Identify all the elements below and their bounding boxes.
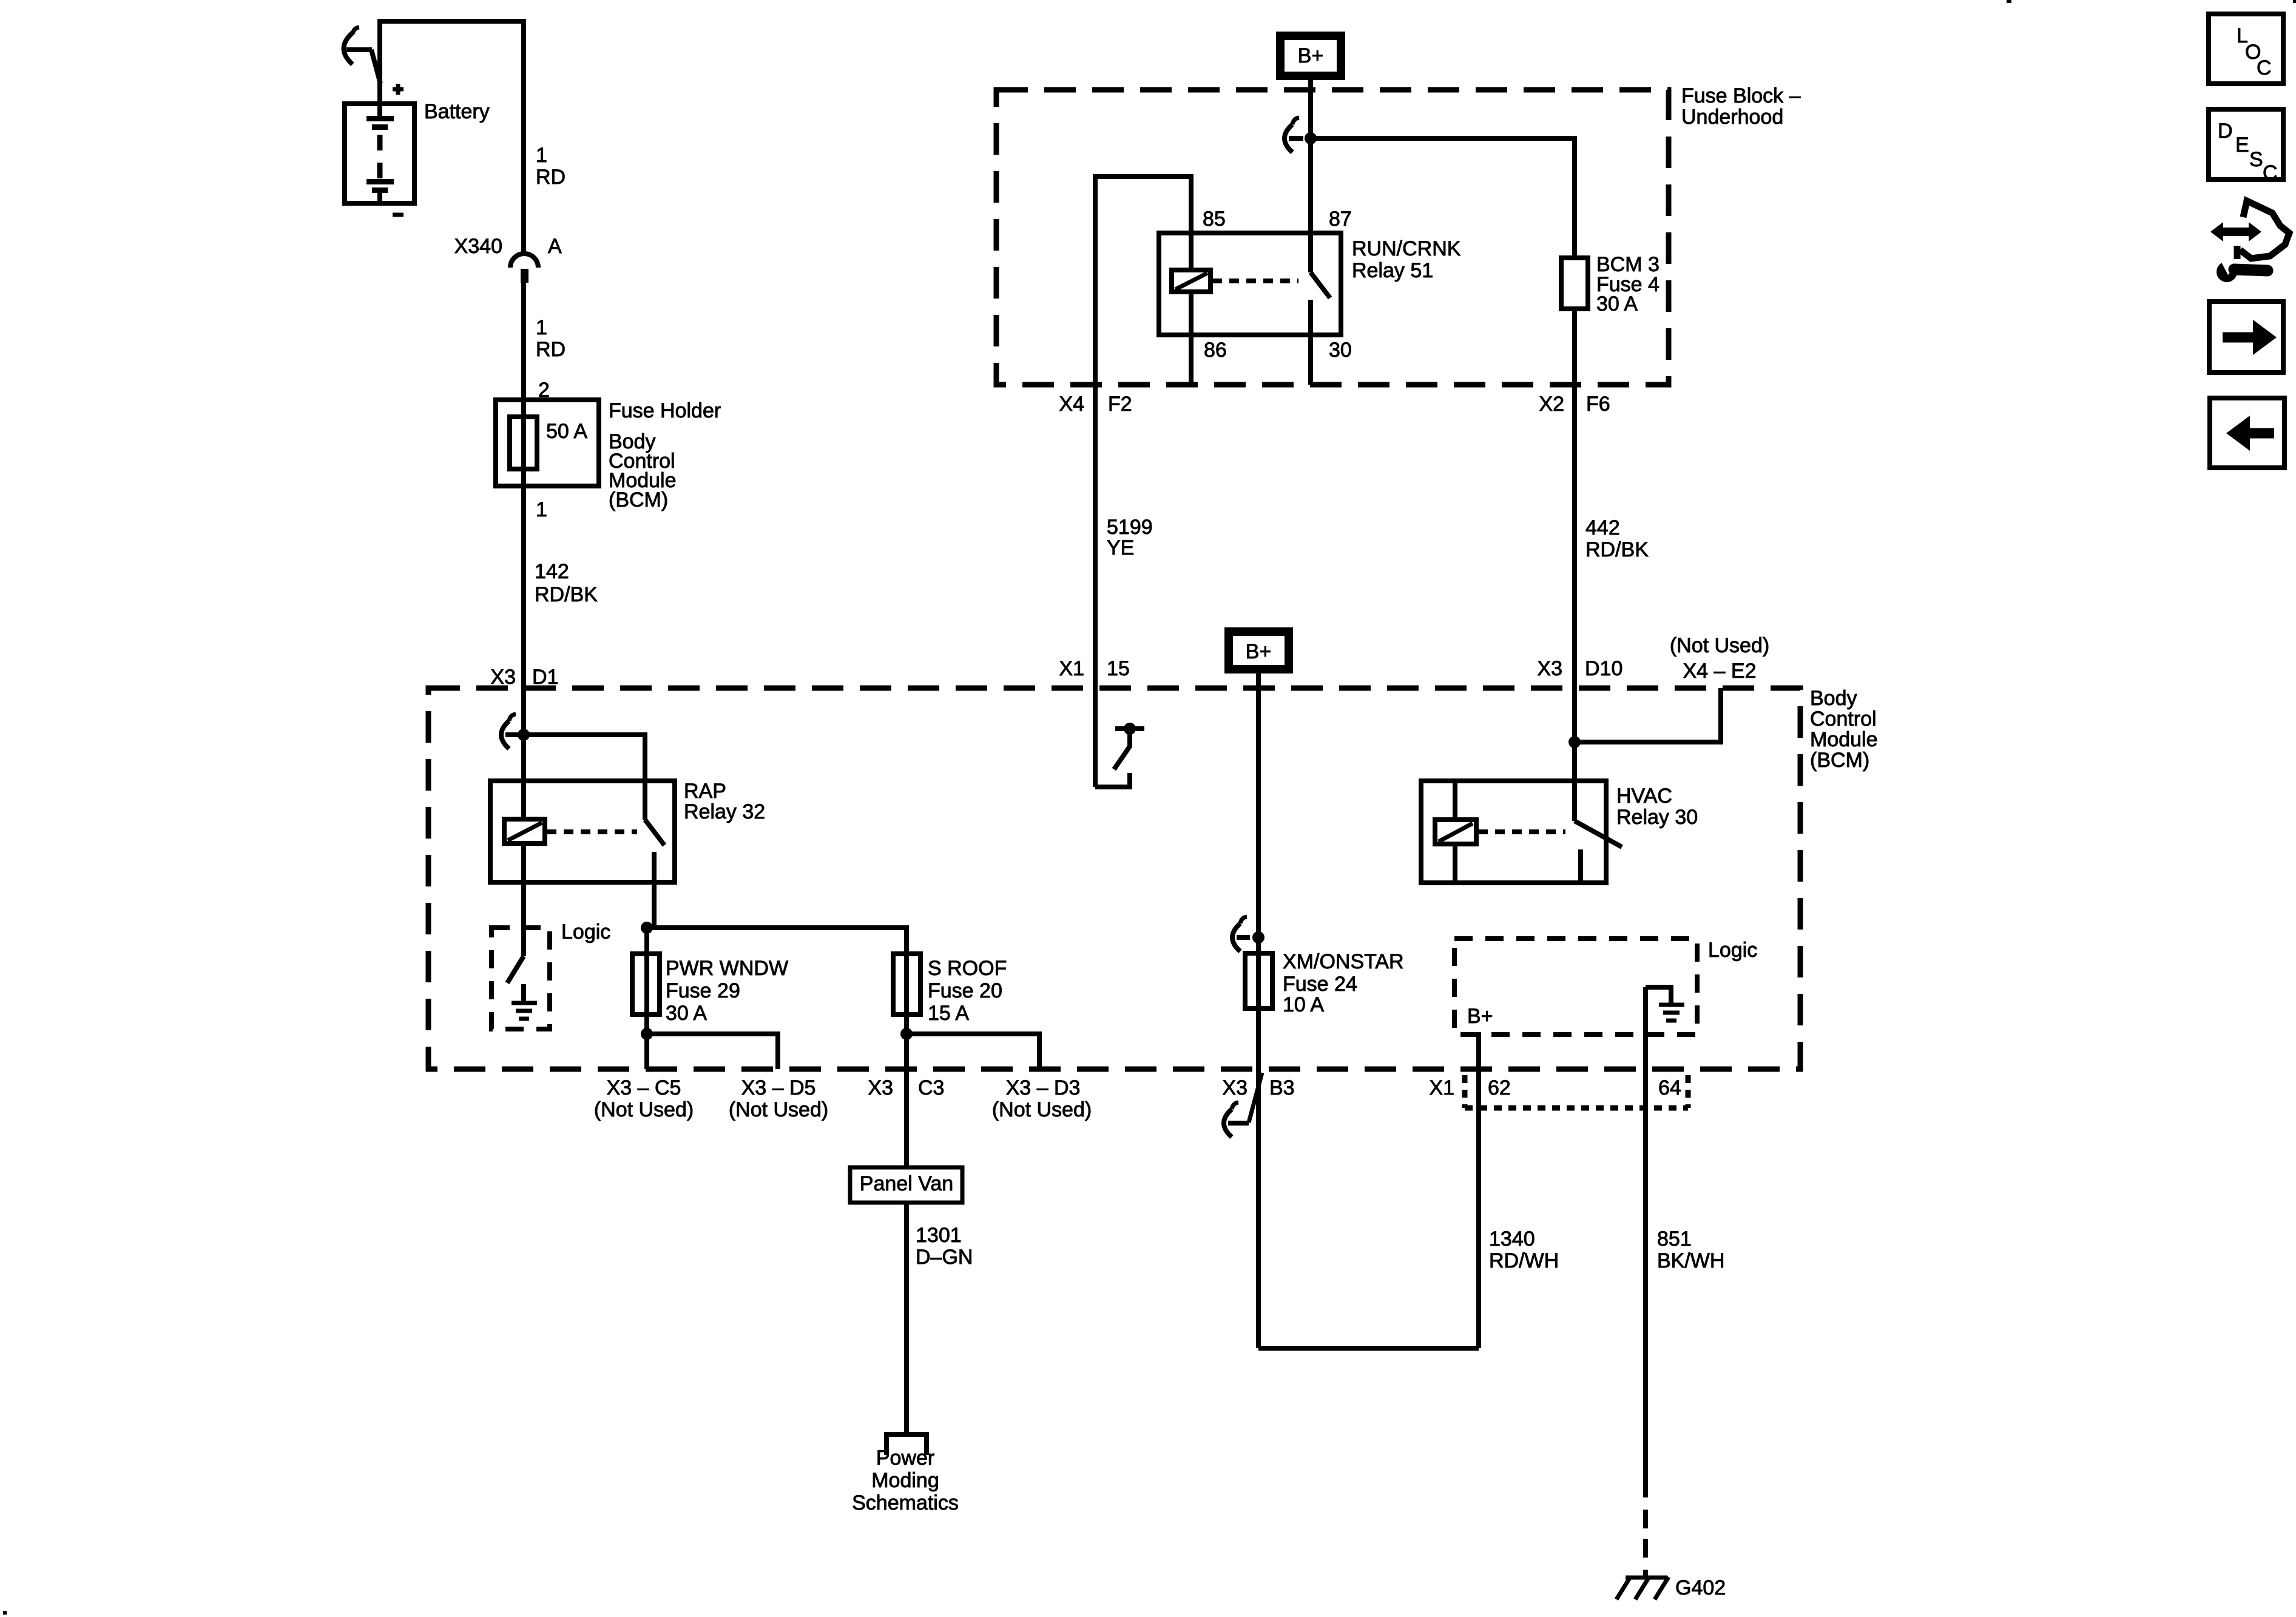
wire relay 51 coil loop to X4 F2 (1095, 177, 1191, 385)
svg-text:Relay 32: Relay 32 (684, 800, 765, 823)
wire through S ROOF fuse (904, 954, 909, 1167)
label 851 BK/WH (1657, 1227, 1724, 1272)
label X3 - D3 (Not Used) (992, 1076, 1092, 1121)
svg-text:C: C (2263, 161, 2278, 184)
svg-text:X2: X2 (1539, 393, 1564, 416)
label 1301 D-GN (916, 1224, 973, 1269)
svg-text:Body: Body (1810, 687, 1857, 710)
svg-text:851: 851 (1657, 1227, 1692, 1251)
svg-text:B+: B+ (1246, 640, 1272, 663)
label HVAC Relay 30 (1616, 785, 1698, 829)
wire 442 RD/BK (1572, 385, 1577, 821)
svg-text:X3 – C5: X3 – C5 (607, 1076, 681, 1099)
svg-text:Logic: Logic (561, 920, 610, 944)
RAP relay switch blade (645, 820, 664, 845)
svg-text:RD/WH: RD/WH (1489, 1249, 1559, 1272)
svg-text:Power: Power (876, 1447, 934, 1470)
label 5199 YE (1107, 516, 1153, 559)
connector label X3 D10 (1537, 657, 1622, 680)
connector label X3 C3 (868, 1076, 944, 1099)
svg-text:X340: X340 (454, 235, 502, 258)
logic box left (491, 928, 550, 1029)
DESC nav box (2209, 109, 2283, 184)
wire junction through PWR WNDW fuse (644, 928, 649, 1034)
svg-text:S: S (2249, 148, 2263, 171)
wire B+ logic to X1 62 (1476, 1032, 1481, 1348)
svg-text:Moding: Moding (871, 1469, 939, 1492)
svg-text:XM/ONSTAR: XM/ONSTAR (1283, 950, 1404, 973)
svg-text:X3: X3 (490, 666, 516, 689)
svg-text:X3: X3 (868, 1076, 893, 1099)
wire B+ down (1308, 80, 1313, 138)
svg-text:Fuse 24: Fuse 24 (1283, 973, 1357, 996)
label XM/ONSTAR Fuse 24 10 A (1283, 950, 1404, 1016)
back arrow box (2210, 398, 2284, 468)
wire label 1 RD upper (536, 144, 566, 189)
svg-text:S ROOF: S ROOF (928, 957, 1007, 980)
svg-text:X3 – D5: X3 – D5 (741, 1076, 816, 1099)
svg-text:(Not Used): (Not Used) (594, 1098, 694, 1121)
wire battery positive to main feed (380, 21, 524, 255)
stray mark top (2007, 0, 2011, 3)
svg-text:Fuse Holder: Fuse Holder (609, 399, 721, 422)
svg-text:F2: F2 (1108, 393, 1132, 416)
svg-text:X3 – D3: X3 – D3 (1006, 1076, 1081, 1099)
node junction below fuse 29 (641, 1028, 653, 1040)
fuse PWR WNDW 29 (632, 954, 660, 1014)
logic ground right (1646, 987, 1684, 1021)
svg-text:Panel Van: Panel Van (860, 1172, 953, 1195)
battery B1 (345, 104, 414, 203)
svg-text:Relay 51: Relay 51 (1352, 259, 1433, 282)
wire junction to X4-E2 (1575, 688, 1721, 742)
wire RAP output to fuses (652, 882, 657, 928)
RAP Relay 32 box (490, 781, 675, 882)
relay 51 coil-switch dashed link (1212, 279, 1298, 283)
svg-text:BK/WH: BK/WH (1657, 1249, 1724, 1272)
logic switch blade (507, 956, 524, 983)
label X3 - D5 (Not Used) (729, 1076, 828, 1121)
connector label X3 B3 (1222, 1076, 1294, 1099)
relay 51 output contact pin 30 (1308, 300, 1313, 385)
HVAC relay coil (1435, 781, 1476, 883)
svg-text:D10: D10 (1585, 657, 1622, 680)
RAP relay coil (504, 819, 545, 843)
connector label X1 15 (1059, 657, 1129, 680)
label X4 - E2 (Not Used) (1670, 634, 1769, 683)
stray mark top right corner (2293, 0, 2296, 3)
svg-text:E: E (2235, 133, 2249, 157)
svg-text:1: 1 (536, 316, 547, 339)
Fuse Block Underhood dashed box (996, 90, 1669, 385)
logic ground (512, 984, 537, 1019)
svg-text:RD: RD (536, 338, 566, 361)
svg-text:X1: X1 (1429, 1076, 1454, 1099)
fuse 50A element (510, 417, 537, 469)
wire splice to BCM3 fuse (1311, 138, 1575, 258)
wire X340 to fuse holder (521, 283, 526, 400)
connector X1 dotted marks (1465, 1075, 1688, 1108)
battery plus sign (393, 84, 403, 95)
svg-text:B3: B3 (1269, 1076, 1295, 1099)
svg-text:B+: B+ (1467, 1005, 1493, 1028)
connector label X2 F6 (1539, 393, 1610, 416)
label Body Control Module (BCM) (1810, 687, 1878, 772)
battery minus sign (393, 213, 403, 217)
forward arrow box (2209, 302, 2283, 373)
splice under X3 D1 (501, 714, 530, 749)
relay 51 coil (1172, 233, 1210, 385)
svg-text:30 A: 30 A (1596, 292, 1638, 316)
svg-text:1301: 1301 (916, 1224, 962, 1247)
wire fuse 4 down (1572, 309, 1577, 385)
label X3 - C5 (Not Used) (594, 1076, 694, 1121)
label S ROOF Fuse 20 15 A (928, 957, 1007, 1025)
svg-text:Fuse Block –: Fuse Block – (1681, 84, 1801, 107)
wire junction to S ROOF fuse (647, 928, 907, 954)
node junction 442 (1568, 736, 1581, 748)
wire 851 BK/WH (1643, 987, 1648, 1497)
svg-text:(BCM): (BCM) (609, 488, 668, 511)
svg-text:X3: X3 (1222, 1076, 1248, 1099)
label PWR WNDW Fuse 29 30 A (666, 957, 788, 1025)
label Fuse Holder Body Control Module (BCM) (609, 399, 721, 511)
svg-text:1: 1 (536, 144, 547, 167)
svg-text:RD: RD (536, 166, 566, 189)
svg-text:RD/BK: RD/BK (535, 583, 598, 606)
svg-text:PWR WNDW: PWR WNDW (666, 957, 788, 980)
HVAC relay output contact (1578, 849, 1583, 883)
wire fuse holder to BCM, circuit 142 (521, 486, 526, 819)
ignition logic switch contact (1095, 723, 1144, 787)
svg-text:Schematics: Schematics (852, 1491, 959, 1514)
splice B+ node (1285, 118, 1317, 152)
wire junction to X3-D3 (907, 1034, 1039, 1069)
HVAC relay switch blade (1575, 821, 1622, 847)
hood wrench icon (2210, 201, 2289, 282)
wire 1301 D-GN (904, 1203, 909, 1432)
fuse holder box (496, 400, 599, 486)
svg-text:1340: 1340 (1489, 1227, 1535, 1251)
svg-text:86: 86 (1204, 339, 1227, 362)
wire splice to RAP relay switch (524, 735, 645, 820)
node junction below fuse 20 (900, 1028, 913, 1040)
svg-text:A: A (548, 235, 562, 258)
label 442 RD/BK (1585, 516, 1649, 561)
svg-text:142: 142 (535, 560, 569, 583)
wire B+ to relay 51 switch (1308, 138, 1313, 272)
wire through fuse holder (521, 400, 526, 486)
connector label X1 62 (1429, 1076, 1510, 1099)
splice XM node (1232, 917, 1264, 951)
svg-text:62: 62 (1488, 1076, 1511, 1099)
svg-text:RAP: RAP (684, 780, 726, 803)
svg-text:X1: X1 (1059, 657, 1084, 680)
logic box right (1454, 939, 1697, 1035)
svg-text:Relay 30: Relay 30 (1616, 806, 1698, 829)
svg-text:Logic: Logic (1708, 939, 1757, 962)
svg-text:Underhood: Underhood (1681, 106, 1783, 129)
svg-text:85: 85 (1203, 208, 1226, 231)
Panel Van box (850, 1167, 962, 1203)
label RUN/CRNK Relay 51 (1352, 237, 1461, 282)
wire 5199 YE (1093, 385, 1098, 787)
label Fuse Block - Underhood (1681, 84, 1801, 129)
connector B3 terminal blade (1224, 1073, 1262, 1137)
connector label X4 F2 (1059, 393, 1132, 416)
svg-text:10 A: 10 A (1283, 993, 1324, 1016)
RAP relay coil-switch dashed link (547, 829, 637, 834)
LOC nav box (2209, 14, 2283, 84)
wire junction to X3-C5 (644, 1034, 649, 1069)
svg-text:15: 15 (1107, 657, 1130, 680)
svg-text:RUN/CRNK: RUN/CRNK (1352, 237, 1461, 260)
svg-text:64: 64 (1658, 1076, 1681, 1099)
wire B3 link to circuit 1340 (1258, 1346, 1479, 1351)
ground G402 (1616, 1576, 1726, 1599)
RAP relay output contact (652, 852, 657, 882)
svg-text:G402: G402 (1675, 1576, 1726, 1599)
Body Control Module dashed box (428, 688, 1800, 1069)
label RAP Relay 32 (684, 780, 765, 823)
svg-text:C3: C3 (918, 1076, 944, 1099)
svg-text:X4 – E2: X4 – E2 (1683, 660, 1757, 683)
svg-text:(Not Used): (Not Used) (729, 1098, 828, 1121)
svg-text:D: D (2218, 120, 2233, 143)
svg-text:RD/BK: RD/BK (1585, 538, 1649, 561)
B+ power symbol middle (1224, 627, 1293, 673)
svg-text:YE: YE (1107, 536, 1134, 559)
node junction fuse row (641, 922, 653, 934)
fuse BCM 3 Fuse 4 (1561, 258, 1588, 309)
svg-text:30 A: 30 A (666, 1002, 707, 1025)
svg-text:Control: Control (1810, 707, 1877, 731)
svg-text:87: 87 (1329, 208, 1352, 231)
label Power Moding Schematics (852, 1447, 959, 1514)
wire label 1 RD lower (536, 316, 566, 361)
stray mark bottom left (3, 1611, 7, 1615)
fuse S ROOF 20 (893, 954, 920, 1014)
wire label 142 RD/BK (535, 560, 598, 606)
svg-text:D–GN: D–GN (916, 1246, 973, 1269)
wire junction to X3-D5 (647, 1034, 778, 1069)
svg-text:1: 1 (536, 498, 547, 521)
svg-text:B+: B+ (1298, 44, 1324, 67)
svg-text:Battery: Battery (424, 100, 490, 123)
svg-text:(BCM): (BCM) (1810, 749, 1869, 772)
svg-text:5199: 5199 (1107, 516, 1153, 539)
fuse XM/ONSTAR 24 (1245, 953, 1272, 1008)
battery clamp terminal (344, 27, 381, 84)
svg-text:Fuse 29: Fuse 29 (666, 979, 740, 1002)
svg-text:(Not Used): (Not Used) (992, 1098, 1092, 1121)
svg-text:C: C (2257, 56, 2272, 79)
RUN/CRNK Relay 51 box (1159, 233, 1341, 335)
svg-text:30: 30 (1329, 339, 1352, 362)
label BCM 3 Fuse 4 30 A (1596, 253, 1660, 316)
wire RAP coil to logic switch (521, 843, 526, 956)
relay 51 switch blade (1311, 272, 1330, 298)
svg-text:HVAC: HVAC (1616, 785, 1672, 808)
svg-text:15 A: 15 A (928, 1002, 969, 1025)
connector label X3 D1 (490, 666, 558, 689)
B+ power symbol top (1276, 32, 1345, 80)
svg-text:(Not Used): (Not Used) (1670, 634, 1769, 657)
HVAC Relay 30 box (1421, 781, 1606, 883)
svg-text:442: 442 (1585, 516, 1620, 539)
wire B+ to XM fuse (1256, 673, 1261, 1348)
HVAC relay coil-switch dashed link (1478, 829, 1565, 834)
svg-text:X3: X3 (1537, 657, 1562, 680)
svg-text:D1: D1 (532, 666, 558, 689)
svg-text:F6: F6 (1586, 393, 1610, 416)
svg-text:X4: X4 (1059, 393, 1084, 416)
svg-text:Module: Module (1810, 728, 1878, 751)
svg-text:50 A: 50 A (546, 420, 587, 443)
wire 851 hidden section dashes (1643, 1510, 1648, 1578)
label 1340 RD/WH (1489, 1227, 1559, 1272)
off-page connector bracket (886, 1434, 927, 1455)
svg-text:Fuse 20: Fuse 20 (928, 979, 1002, 1002)
connector X340 pin A (454, 235, 562, 283)
